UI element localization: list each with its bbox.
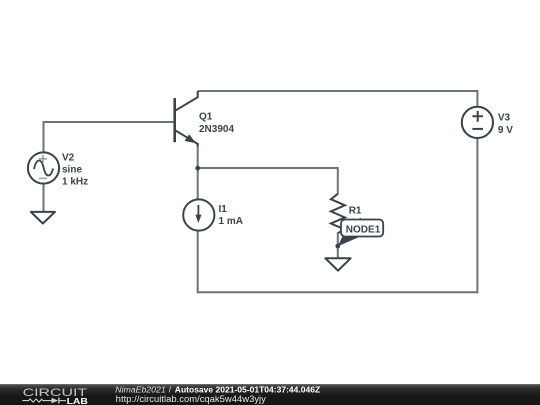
svg-text:sine: sine bbox=[62, 165, 82, 176]
footer bar bbox=[0, 384, 540, 405]
wire node to I1 top bbox=[197, 168, 199, 200]
svg-text:9 V: 9 V bbox=[498, 125, 513, 136]
voltage source V2 bbox=[28, 152, 59, 183]
wire I1 bottom to bottom rail bbox=[197, 230, 199, 293]
resistor R1 bbox=[331, 194, 345, 233]
node junction dot (R1 bottom) bbox=[335, 244, 340, 249]
node NODE1 flag bbox=[338, 220, 383, 247]
wire collector top rail bbox=[198, 90, 478, 92]
current source I1 bbox=[183, 199, 214, 230]
svg-text:V2: V2 bbox=[62, 153, 75, 164]
transistor Q1 bbox=[175, 91, 198, 147]
label Q1 2N3904 bbox=[199, 111, 234, 134]
wire V3 top stub bbox=[476, 90, 478, 108]
label V2 sine 1 kHz bbox=[62, 153, 88, 188]
wire R1 bottom to ground bbox=[337, 233, 339, 260]
voltage source V3 bbox=[462, 107, 493, 138]
label R1 value bbox=[349, 206, 373, 229]
footer caption text bbox=[115, 384, 321, 403]
svg-text:V3: V3 bbox=[498, 113, 511, 124]
svg-text:1 kHz: 1 kHz bbox=[62, 177, 88, 188]
wire node to R1 top bbox=[198, 168, 338, 195]
wire base: V2 top to Q1 base bbox=[44, 122, 174, 154]
ground (below R1) bbox=[325, 258, 350, 270]
svg-text:http://circuitlab.com/cqak5w44: http://circuitlab.com/cqak5w44w3yjy bbox=[116, 394, 267, 404]
label I1 1 mA bbox=[219, 204, 243, 227]
wire V3 bottom to bottom rail bbox=[476, 138, 478, 294]
wire emitter to node bbox=[197, 143, 199, 168]
svg-text:1 mA: 1 mA bbox=[219, 216, 243, 227]
node junction dot (emitter node) bbox=[195, 166, 200, 171]
svg-text:R1: R1 bbox=[349, 206, 362, 217]
wire bottom rail bbox=[198, 291, 479, 293]
svg-text:I1: I1 bbox=[219, 204, 228, 215]
svg-text:NODE1: NODE1 bbox=[346, 225, 381, 236]
wire V2 bottom to ground bbox=[43, 183, 45, 213]
label V3 9 V bbox=[498, 113, 513, 136]
svg-text:2N3904: 2N3904 bbox=[199, 124, 234, 135]
svg-text:LAB: LAB bbox=[67, 397, 88, 405]
CircuitLab logo bbox=[22, 387, 88, 405]
svg-text:Q1: Q1 bbox=[199, 111, 213, 122]
ground (below V2) bbox=[31, 212, 55, 224]
